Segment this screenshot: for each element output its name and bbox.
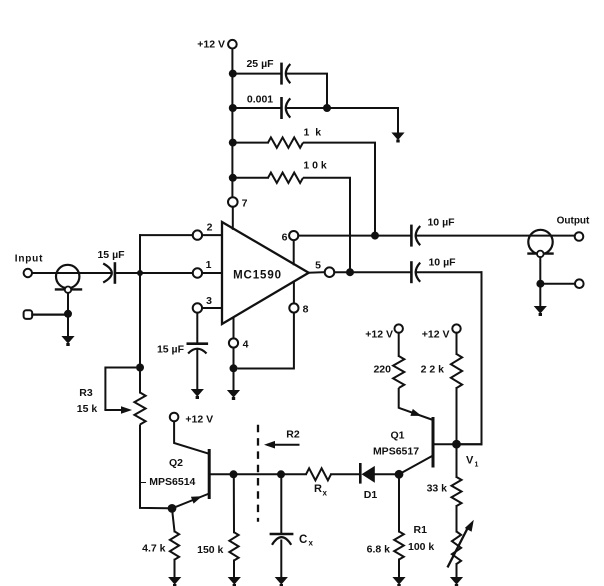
label 0.001 xyxy=(247,94,273,106)
wire Q2 emitter xyxy=(172,494,209,509)
label Q1 xyxy=(390,430,404,442)
wire pin6 right xyxy=(298,235,411,237)
label Cx xyxy=(299,534,314,548)
svg-text:0.001: 0.001 xyxy=(247,94,273,106)
svg-text:5: 5 xyxy=(315,260,321,272)
ground bypass xyxy=(391,133,404,143)
supply +12V Q1 xyxy=(395,324,403,332)
pin 2 xyxy=(193,230,202,239)
svg-text:x: x xyxy=(309,539,314,548)
wire left riser xyxy=(139,235,141,367)
svg-text:MC1590: MC1590 xyxy=(233,270,282,282)
wire Q1 base xyxy=(433,443,482,445)
resistor R3 15k xyxy=(134,393,145,425)
ground 150k xyxy=(228,577,241,586)
wire Cx bottom xyxy=(280,541,282,578)
output jack sleeve circle xyxy=(537,251,544,258)
svg-text:150 k: 150 k xyxy=(197,544,223,556)
arrow R1 variable xyxy=(448,520,474,567)
input jack sleeve circle xyxy=(65,287,71,293)
label 15 uF input xyxy=(97,249,125,261)
pin 5 xyxy=(325,267,335,277)
wire 6.8k bottom xyxy=(398,560,400,578)
label 4.7 k xyxy=(142,543,166,555)
wire R1 bottom xyxy=(456,564,458,578)
output terminal xyxy=(575,232,584,241)
svg-text:7: 7 xyxy=(242,198,248,210)
resistor R1 100k xyxy=(452,532,461,565)
input terminal xyxy=(24,269,32,277)
label Input xyxy=(15,254,43,265)
wire shield terminal xyxy=(32,314,64,316)
label D1 xyxy=(364,489,378,501)
wire output shield down xyxy=(539,257,541,281)
wire 150k bottom xyxy=(233,561,235,578)
junction bypass node xyxy=(323,104,331,112)
svg-text:8: 8 xyxy=(303,304,309,316)
junction rail/10k xyxy=(229,174,237,182)
arrow Q1 emitter xyxy=(410,409,421,416)
junction input node xyxy=(137,270,143,276)
wire C5 right xyxy=(416,271,482,273)
wire +12V rail xyxy=(231,49,233,198)
label MPS6514 xyxy=(141,476,196,488)
resistor Rx xyxy=(306,468,331,480)
capacitor 25uF xyxy=(282,64,291,83)
pin 1 xyxy=(193,268,202,277)
svg-text:V: V xyxy=(466,455,474,467)
input jack J1 xyxy=(56,265,79,288)
svg-text:D1: D1 xyxy=(364,489,378,501)
wire 6.8k top xyxy=(398,474,400,531)
label 33 k xyxy=(427,483,448,495)
pin 8 xyxy=(289,303,298,312)
label 150 k xyxy=(197,544,223,556)
wire pin6 stub xyxy=(293,240,295,264)
label MPS6517 xyxy=(373,446,419,458)
pin 4 xyxy=(229,338,249,350)
junction rail/0.001 xyxy=(229,104,237,112)
resistor 10k xyxy=(268,173,303,183)
wire 4.7k bottom xyxy=(174,560,176,578)
pin 2 label xyxy=(207,222,213,234)
junction pin6/1k xyxy=(371,232,379,240)
wire C 0.001 right xyxy=(286,108,398,133)
label Q2 xyxy=(169,457,183,469)
arrow Q2 emitter xyxy=(191,496,202,503)
wire 2.2k top xyxy=(456,333,458,354)
wire pin3 right xyxy=(202,307,222,309)
label 1 k xyxy=(303,127,322,139)
capacitor 0.001 xyxy=(282,98,291,117)
wire pin1 right xyxy=(202,272,222,274)
wire 150k top xyxy=(233,474,235,532)
wire pin8 down xyxy=(238,313,294,369)
wire pin2 left xyxy=(140,234,193,236)
ground output xyxy=(534,306,547,316)
svg-text:Q1: Q1 xyxy=(390,430,404,442)
svg-text:6: 6 xyxy=(282,232,288,244)
wire Rx to D1 xyxy=(331,473,359,475)
label 10 uF top xyxy=(427,217,455,229)
wire C15 to ground xyxy=(196,349,198,389)
wire R3 wiper arm xyxy=(105,368,136,411)
wire rail to R 1k xyxy=(233,142,268,144)
svg-text:R2: R2 xyxy=(286,429,300,441)
svg-text:R: R xyxy=(314,483,322,495)
svg-text:4: 4 xyxy=(243,339,249,351)
pin 5 label xyxy=(315,260,321,272)
wire C15in to pin1 xyxy=(115,272,193,274)
transistor Q1 bar xyxy=(432,419,435,467)
svg-text:+12 V: +12 V xyxy=(185,413,213,425)
wire R 1k to pin6 node xyxy=(303,143,375,236)
svg-text:2 2 k: 2 2 k xyxy=(421,364,445,376)
label R3 xyxy=(79,387,93,399)
wire Cx top xyxy=(280,474,282,534)
junction pin4/pin8 xyxy=(230,364,238,372)
dashed line R2 xyxy=(257,425,259,522)
pin 3 label xyxy=(206,295,212,307)
wire input to jack xyxy=(32,272,111,274)
svg-text:Output: Output xyxy=(557,215,590,226)
label 220 xyxy=(373,364,391,376)
wire R3 top xyxy=(139,372,141,393)
svg-text:1 k: 1 k xyxy=(303,127,322,139)
svg-text:+12 V: +12 V xyxy=(422,328,450,340)
ground 6.8k xyxy=(392,577,405,586)
resistor 220 xyxy=(393,356,404,388)
svg-text:+12 V: +12 V xyxy=(197,39,225,51)
wire pin2 right xyxy=(202,234,222,236)
wire feedback riser xyxy=(481,272,483,444)
wire rail to C 0.001 xyxy=(233,107,282,109)
wire Q1 emitter xyxy=(399,388,433,420)
output ground terminal xyxy=(575,279,584,288)
label 2.2 k xyxy=(421,364,445,376)
input jack sleeve bar xyxy=(56,288,81,290)
resistor 6.8k xyxy=(394,532,404,560)
capacitor 10uF C4 xyxy=(411,226,420,245)
junction Q1 base node xyxy=(452,440,461,449)
resistor 33k xyxy=(452,477,462,506)
wire jack shield down xyxy=(67,293,69,311)
resistor 2.2k xyxy=(451,354,462,388)
svg-text:1 0 k: 1 0 k xyxy=(303,160,327,172)
label V1 xyxy=(466,455,479,469)
junction Q1 collector xyxy=(395,470,404,479)
svg-text:15 µF: 15 µF xyxy=(97,249,125,261)
capacitor 15uF input xyxy=(103,264,115,283)
wire 220 top xyxy=(398,333,400,356)
svg-text:x: x xyxy=(323,489,328,498)
svg-text:1: 1 xyxy=(206,259,212,271)
ground R1 xyxy=(450,577,463,586)
supply +12V Q2 xyxy=(170,413,179,422)
wire 33k to R1 xyxy=(456,506,458,532)
label 100 k xyxy=(408,541,434,553)
wire pin8 stub xyxy=(293,282,295,304)
pin 6 label xyxy=(282,232,288,244)
svg-text:25 µF: 25 µF xyxy=(246,58,274,70)
label Output xyxy=(557,215,590,226)
svg-text:+12 V: +12 V xyxy=(365,328,393,340)
wire apex to pin5 xyxy=(309,271,325,274)
label R2 xyxy=(286,429,300,441)
wire pin4 down xyxy=(233,348,235,369)
power terminal +12V xyxy=(228,40,237,49)
junction Q2 base/150k xyxy=(230,470,238,478)
wire C 25uF right xyxy=(286,74,327,108)
svg-text:10 µF: 10 µF xyxy=(427,217,455,229)
svg-text:2: 2 xyxy=(207,222,213,234)
arrow R2 xyxy=(264,441,299,449)
wire D1 to Q1 node xyxy=(375,473,399,475)
label +12V Q1 xyxy=(365,328,393,340)
wire output shield ground xyxy=(539,284,541,306)
output jack J2 xyxy=(528,230,552,254)
label 15 k xyxy=(77,403,98,415)
wire shield to output gnd terminal xyxy=(544,283,575,285)
wire R3 wiper arrow xyxy=(105,406,132,414)
ground 4.7k xyxy=(168,577,181,586)
svg-text:4.7 k: 4.7 k xyxy=(142,543,166,555)
label R1 xyxy=(414,524,428,536)
svg-text:6.8 k: 6.8 k xyxy=(367,544,391,556)
svg-text:MPS6517: MPS6517 xyxy=(373,446,419,458)
svg-text:R3: R3 xyxy=(79,387,93,399)
diode D1 xyxy=(360,464,375,482)
junction input shield xyxy=(64,310,72,318)
label 25 uF xyxy=(246,58,274,70)
svg-text:10 µF: 10 µF xyxy=(428,257,456,269)
capacitor Cx xyxy=(271,534,292,545)
wire R3 bottom xyxy=(140,425,168,509)
capacitor 15uF pin3 xyxy=(188,344,207,354)
pin 8 label xyxy=(303,304,309,316)
svg-text:3: 3 xyxy=(206,295,212,307)
ground pin4 xyxy=(227,390,240,400)
power terminal +12V label xyxy=(197,39,225,51)
wire pin7 stub xyxy=(232,207,234,229)
label 10 uF bottom xyxy=(428,257,456,269)
svg-text:15 µF: 15 µF xyxy=(157,344,185,356)
capacitor 10uF C5 xyxy=(411,263,420,282)
wire 2.2k bottom xyxy=(456,388,458,444)
junction rail/1k xyxy=(229,139,237,147)
svg-text:100 k: 100 k xyxy=(408,541,434,553)
wire rail to C 25uF xyxy=(233,73,282,75)
ground pin3 cap xyxy=(191,389,204,399)
junction R3 top xyxy=(136,364,144,372)
ground input xyxy=(61,336,74,346)
wire pin4 to ground xyxy=(233,368,235,390)
pin 1 label xyxy=(206,259,212,271)
wire Q1 collector xyxy=(399,456,433,475)
wire pin4 stub xyxy=(233,319,235,339)
wire base node right xyxy=(457,443,482,445)
wire Q2 collector xyxy=(174,421,209,453)
wire rail to R 10k xyxy=(233,177,268,179)
input ground terminal xyxy=(24,310,33,319)
pin 3 xyxy=(193,303,202,312)
svg-text:33 k: 33 k xyxy=(427,483,448,495)
wire 4.7k top xyxy=(172,509,175,532)
wire shield to ground xyxy=(67,318,69,336)
svg-text:Input: Input xyxy=(15,254,43,265)
junction rail/25uF xyxy=(229,70,237,78)
op-amp U1 MC1590 xyxy=(222,222,309,324)
label +12V 2.2k xyxy=(422,328,450,340)
resistor 150k xyxy=(229,532,238,560)
wire R 10k to pin5 node xyxy=(303,178,350,272)
junction pin5/10k xyxy=(346,268,354,276)
svg-text:1: 1 xyxy=(475,462,479,469)
svg-text:R1: R1 xyxy=(414,524,428,536)
svg-text:Q2: Q2 xyxy=(169,457,183,469)
svg-text:15 k: 15 k xyxy=(77,403,98,415)
wire 33k top xyxy=(456,444,458,477)
label 6.8 k xyxy=(367,544,391,556)
wire pin3 down xyxy=(196,313,198,344)
wire pin5 right xyxy=(334,271,411,273)
wire Q2 base xyxy=(209,473,306,475)
ground Cx xyxy=(275,577,288,586)
label +12V Q2 xyxy=(185,413,213,425)
pin 7 xyxy=(228,197,248,209)
transistor Q2 bar xyxy=(208,451,211,498)
label Rx xyxy=(314,483,328,498)
junction output shield xyxy=(536,280,544,288)
label 10 k xyxy=(303,160,327,172)
resistor 4.7k xyxy=(170,531,179,559)
label 15 uF bypass xyxy=(157,344,185,356)
supply +12V 2.2k xyxy=(452,324,460,332)
wire C4 to output jack xyxy=(416,235,575,237)
junction Q2 emitter xyxy=(168,504,177,513)
svg-text:C: C xyxy=(299,534,307,546)
svg-text:– MPS6514: – MPS6514 xyxy=(141,476,196,488)
pin 6 xyxy=(289,231,298,240)
svg-text:220: 220 xyxy=(373,364,391,376)
resistor 1k xyxy=(268,137,303,147)
junction Cx node xyxy=(277,470,285,478)
output jack sleeve bar xyxy=(529,252,553,254)
